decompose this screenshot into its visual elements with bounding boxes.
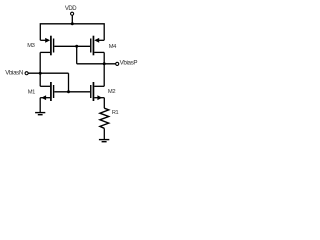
- wire M1 drain lead: [40, 85, 50, 87]
- wire M4 source lead: [99, 39, 105, 41]
- wire VDD stem: [71, 15, 73, 23]
- wire R1 down to ground: [103, 128, 105, 139]
- transistor M2 channel bar: [92, 82, 94, 101]
- wire gate junction down to VbiasP line: [76, 46, 78, 64]
- wire M3-M4 common gate wire: [54, 45, 90, 47]
- ground (right) bar 1: [99, 139, 109, 141]
- wire VDD rail with drops to M3 and M4 sources: [40, 24, 104, 41]
- node VbiasN junction: [39, 72, 42, 75]
- node gate line junction: [67, 90, 70, 93]
- wire M2 source lead: [94, 97, 104, 99]
- transistor M4 gate bar: [90, 39, 92, 53]
- wire M4 drain lead: [94, 51, 104, 53]
- terminal VDD: [71, 12, 74, 15]
- transistor M2 gate bar: [90, 85, 92, 98]
- wire VbiasN line: [28, 72, 68, 74]
- svg-text:R1: R1: [112, 110, 119, 116]
- transistor M2 source arrow (NMOS, points out): [97, 95, 102, 100]
- svg-text:VbiasN: VbiasN: [5, 69, 23, 76]
- wire M1 source down to ground: [39, 98, 41, 112]
- svg-text:M4: M4: [109, 44, 117, 50]
- wire M2 drain lead: [94, 85, 104, 87]
- wire M2 source down to R1: [103, 98, 105, 109]
- node gate junction: [75, 45, 78, 48]
- svg-text:M3: M3: [27, 43, 34, 49]
- transistor M1 gate bar: [53, 85, 55, 98]
- wire M3 source lead: [40, 39, 46, 41]
- transistor M3 gate bar: [53, 39, 55, 53]
- transistor M3 source arrow (PMOS, points into channel): [45, 38, 50, 43]
- resistor R1: [100, 108, 109, 128]
- svg-text:VDD: VDD: [65, 6, 77, 12]
- svg-text:M2: M2: [108, 89, 115, 95]
- wire M3 drain lead: [40, 51, 50, 53]
- ground (left) bar 1: [35, 112, 45, 114]
- transistor M4 source arrow (PMOS, points into channel): [94, 38, 99, 43]
- node VDD-rail junction: [71, 22, 74, 25]
- ground (left) bar 2: [38, 114, 43, 116]
- transistor M3 channel bar: [50, 36, 52, 56]
- transistor M1 source arrow (NMOS, points out): [41, 95, 46, 100]
- transistor M4 channel bar: [92, 36, 94, 56]
- wire M4 drain down through VbiasP node to M2 drain: [103, 52, 105, 86]
- wire VbiasP line: [77, 63, 116, 65]
- wire M3 drain down through VbiasN node to M1 drain: [39, 52, 41, 86]
- wire M1-M2 gate line: [54, 91, 90, 93]
- svg-text:VbiasP: VbiasP: [120, 60, 138, 67]
- terminal VbiasN: [25, 72, 28, 75]
- ground (right) bar 2: [102, 141, 107, 143]
- node M4 drain / VbiasP junction: [103, 62, 106, 65]
- wire M1 source lead: [40, 97, 50, 99]
- terminal VbiasP: [116, 62, 119, 65]
- svg-text:M1: M1: [28, 89, 35, 95]
- wire VbiasN line corner down-link to gate line: [68, 73, 70, 92]
- transistor M1 channel bar: [50, 82, 52, 101]
